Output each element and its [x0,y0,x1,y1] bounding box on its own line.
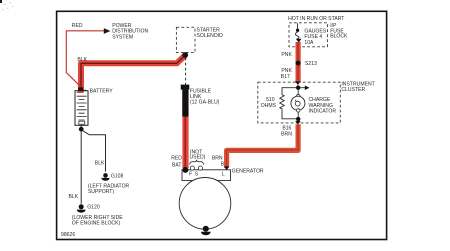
svg-text:G120: G120 [87,205,100,211]
svg-text:SOLENOID: SOLENOID [197,33,224,39]
generator [179,170,231,229]
svg-text:SYSTEM: SYSTEM [112,34,133,40]
wire solenoid stud to fusible link (dashed) [185,58,187,85]
curly brace over unused terminals [190,160,204,165]
svg-text:BATTERY: BATTERY [90,88,114,94]
instrument cluster [258,81,375,122]
label NOT USED [190,150,206,161]
node cluster bottom junction [296,117,300,121]
svg-text:BLK: BLK [95,161,105,167]
label LOWER RIGHT SIDE OF ENGINE BLOCK [72,215,123,226]
connector B17 pin into cluster [295,81,301,85]
svg-text:OF ENGINE BLOCK): OF ENGINE BLOCK) [72,221,121,227]
wire BRN instrument cluster to generator L terminal (highlighted red band) [227,124,299,167]
svg-text:10A: 10A [304,40,314,46]
svg-text:S: S [195,171,199,177]
connector B16 pin out of cluster [295,121,301,125]
ground G120 [77,204,86,212]
wire RED fusible link to generator BAT terminal (highlighted red band) [182,85,189,168]
wire BLK battery positive to starter solenoid (highlighted red band) [81,55,185,92]
svg-text:BLOCK: BLOCK [330,34,348,40]
svg-text:RED: RED [72,23,83,29]
battery [75,87,88,125]
svg-text:S213: S213 [305,61,317,67]
svg-text:G108: G108 [111,173,124,179]
generator BAT terminal stud [182,167,188,173]
diagram border frame [57,11,387,239]
svg-text:USED): USED) [190,154,206,160]
scan artifact top-left corner [0,0,14,10]
generator L terminal connector [224,166,229,170]
starter solenoid [176,27,223,52]
wire PNK fuse to instrument cluster (highlighted red band) [295,42,300,82]
svg-text:BLK: BLK [69,194,79,200]
svg-text:F: F [189,171,192,177]
svg-text:B17: B17 [281,74,290,80]
splice S213 [296,61,301,66]
fuse GAUGES FUSE 4 10A [295,23,326,46]
svg-text:HOT IN RUN OR START: HOT IN RUN OR START [288,16,344,22]
label POWER DISTRIBUTION SYSTEM [112,23,148,41]
svg-text:INDICATOR: INDICATOR [309,109,337,115]
svg-text:BLK: BLK [77,57,87,63]
svg-text:98626: 98626 [61,232,75,238]
I/P fuse block [289,23,348,47]
svg-text:BAT: BAT [172,163,182,169]
wire RED battery positive feed to power distribution system [66,28,110,87]
lamp charge warning indicator [291,90,336,117]
ground G108 [101,173,109,181]
label LEFT RADIATOR SUPPORT [88,184,130,195]
svg-text:BRN: BRN [281,132,292,138]
svg-text:CLUSTER: CLUSTER [341,87,365,93]
svg-text:GENERATOR: GENERATOR [232,169,264,175]
generator case ground [201,226,211,236]
wire BLK junction to ground G108 [83,131,106,172]
solenoid battery terminal stud [182,52,188,58]
node cluster top junction with continuation arrow [296,85,310,90]
fusible link (12 GA-BLU) [181,85,220,117]
wire battery negative lead [80,125,82,127]
svg-text:L: L [222,171,225,177]
junction battery negative splice [79,127,84,132]
svg-text:(12 GA-BLU): (12 GA-BLU) [190,100,220,106]
svg-text:OHMS: OHMS [261,103,277,109]
svg-text:PNK: PNK [281,52,292,58]
svg-text:+: + [84,88,87,94]
generator unused F and S terminal posts [190,166,202,170]
svg-text:SUPPORT): SUPPORT) [88,189,115,195]
svg-text:RED: RED [171,156,182,162]
resistor 510 OHMS [261,88,296,119]
wire BLK junction to ground G120 [80,131,82,204]
